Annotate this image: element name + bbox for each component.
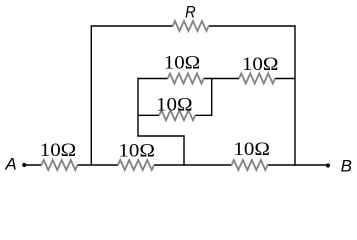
wire: middle top row, Rc to right vertical bbox=[275, 78, 295, 80]
wire: bottom, R1 to R2 (junction with left vertical at x=91.3) bbox=[78, 164, 119, 166]
svg-text:10Ω: 10Ω bbox=[164, 53, 201, 74]
resistor Rc 10ohm (series, middle right) bbox=[239, 74, 275, 84]
resistor R (top) bbox=[173, 21, 209, 31]
wire: middle bottom row, left bar to Rb bbox=[138, 114, 159, 116]
svg-text:10Ω: 10Ω bbox=[40, 140, 77, 161]
node A terminal dot bbox=[22, 163, 26, 167]
svg-text:R: R bbox=[185, 2, 196, 21]
resistor R2 10ohm (bottom middle) bbox=[118, 160, 154, 170]
svg-text:A: A bbox=[4, 154, 16, 173]
wire: bottom, R3 to B dot (junction with right vertical at x=295) bbox=[268, 164, 328, 166]
wire: middle top row, left bar to Ra bbox=[138, 78, 168, 80]
node B terminal dot bbox=[326, 163, 330, 167]
resistor R3 10ohm (bottom right) bbox=[232, 160, 268, 170]
wire: bottom, R2 to R3 (junction with step at x=184) bbox=[154, 164, 232, 166]
svg-text:10Ω: 10Ω bbox=[242, 54, 279, 75]
wire: top wire right lead from R to right vertical bbox=[209, 25, 295, 27]
resistor Ra 10ohm (upper of parallel pair) bbox=[168, 74, 204, 84]
resistor Rb 10ohm (lower of parallel pair) bbox=[159, 110, 195, 120]
wire: top wire left lead to R bbox=[91, 25, 172, 27]
svg-text:10Ω: 10Ω bbox=[118, 140, 155, 161]
resistor R1 10ohm (bottom left) bbox=[42, 160, 78, 170]
wire: middle top row, Ra to right bar and on to Rc bbox=[204, 78, 239, 80]
wire: right vertical (node 3, top wire to bottom wire) bbox=[294, 25, 296, 165]
svg-text:B: B bbox=[341, 157, 352, 176]
wire: right bar of parallel pair bbox=[211, 78, 213, 116]
wire: left vertical (node 1, top wire to bottom wire) bbox=[90, 25, 92, 165]
svg-text:10Ω: 10Ω bbox=[156, 94, 193, 115]
wire: middle bottom row, Rb to right bar bbox=[195, 114, 212, 116]
wire: bottom, A dot to R1 bbox=[24, 164, 42, 166]
wire: left bar of parallel pair with step down to bottom wire (node 2) bbox=[138, 78, 184, 166]
svg-text:10Ω: 10Ω bbox=[233, 139, 270, 160]
